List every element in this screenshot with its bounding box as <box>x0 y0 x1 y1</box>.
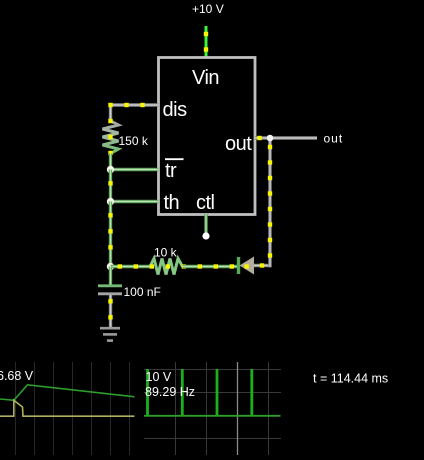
scope right: output voltage pane <box>144 362 281 455</box>
trace output pulses (green) <box>148 369 252 416</box>
node junction at out <box>267 135 274 142</box>
capacitor C1 100nF bottom plate <box>98 285 161 299</box>
wire dis pin to left rail corner <box>108 103 158 121</box>
resistor R1 150k (vertical) <box>103 119 149 155</box>
wire chip out pin to out label <box>255 136 318 140</box>
trace charge current (olive) <box>0 400 135 416</box>
wire left rail tr to th <box>108 170 112 202</box>
svg-text:89.29 Hz: 89.29 Hz <box>145 385 195 399</box>
node junction at tr <box>107 166 114 173</box>
svg-text:tr: tr <box>165 160 177 182</box>
wire right rail up to out junction <box>268 138 272 267</box>
wire capacitor to ground <box>108 295 112 328</box>
node +10V label <box>192 2 224 16</box>
node ctl open terminal <box>202 232 209 239</box>
wire left rail th to bottom junction <box>108 202 112 267</box>
node time readout <box>313 372 388 386</box>
svg-text:Vin: Vin <box>192 67 219 89</box>
svg-text:ctl: ctl <box>196 192 215 214</box>
svg-text:dis: dis <box>163 99 188 121</box>
svg-text:10 V: 10 V <box>146 370 172 384</box>
chip U1 555 timer body <box>159 58 256 215</box>
diode D1 cathode bar <box>237 257 240 274</box>
svg-text:out: out <box>225 133 252 155</box>
svg-text:th: th <box>164 192 180 214</box>
wire ctl pin stub <box>204 214 207 233</box>
capacitor C1 100nF top plate <box>98 267 122 286</box>
node out label <box>324 132 344 146</box>
svg-text:out: out <box>324 132 344 146</box>
node junction at capacitor top <box>107 263 114 270</box>
ground symbol <box>100 328 120 340</box>
wire 10k to diode cathode <box>183 264 238 268</box>
svg-text:6.68 V: 6.68 V <box>0 369 34 383</box>
wire th junction to chip th pin <box>111 200 159 203</box>
wire diode anode to right rail corner <box>254 263 270 267</box>
wire tr junction to chip tr pin <box>111 168 159 171</box>
node junction at th <box>107 198 114 205</box>
resistor R2 10k (horizontal) <box>150 246 186 275</box>
wire bottom junction to 10k resistor <box>111 264 151 268</box>
svg-text:100 nF: 100 nF <box>124 285 161 299</box>
wire 150k bottom to tr junction <box>109 154 112 170</box>
svg-text:t = 114.44 ms: t = 114.44 ms <box>313 372 388 386</box>
trace capacitor voltage (green) <box>0 385 135 401</box>
wire Vcc supply to chip Vin pin <box>204 26 208 57</box>
svg-text:+10 V: +10 V <box>192 2 224 16</box>
diode D1 triangle (pointing left) <box>240 257 255 275</box>
scope left: capacitor voltage pane <box>0 362 135 455</box>
svg-text:150 k: 150 k <box>119 134 149 148</box>
svg-text:10 k: 10 k <box>154 246 178 260</box>
